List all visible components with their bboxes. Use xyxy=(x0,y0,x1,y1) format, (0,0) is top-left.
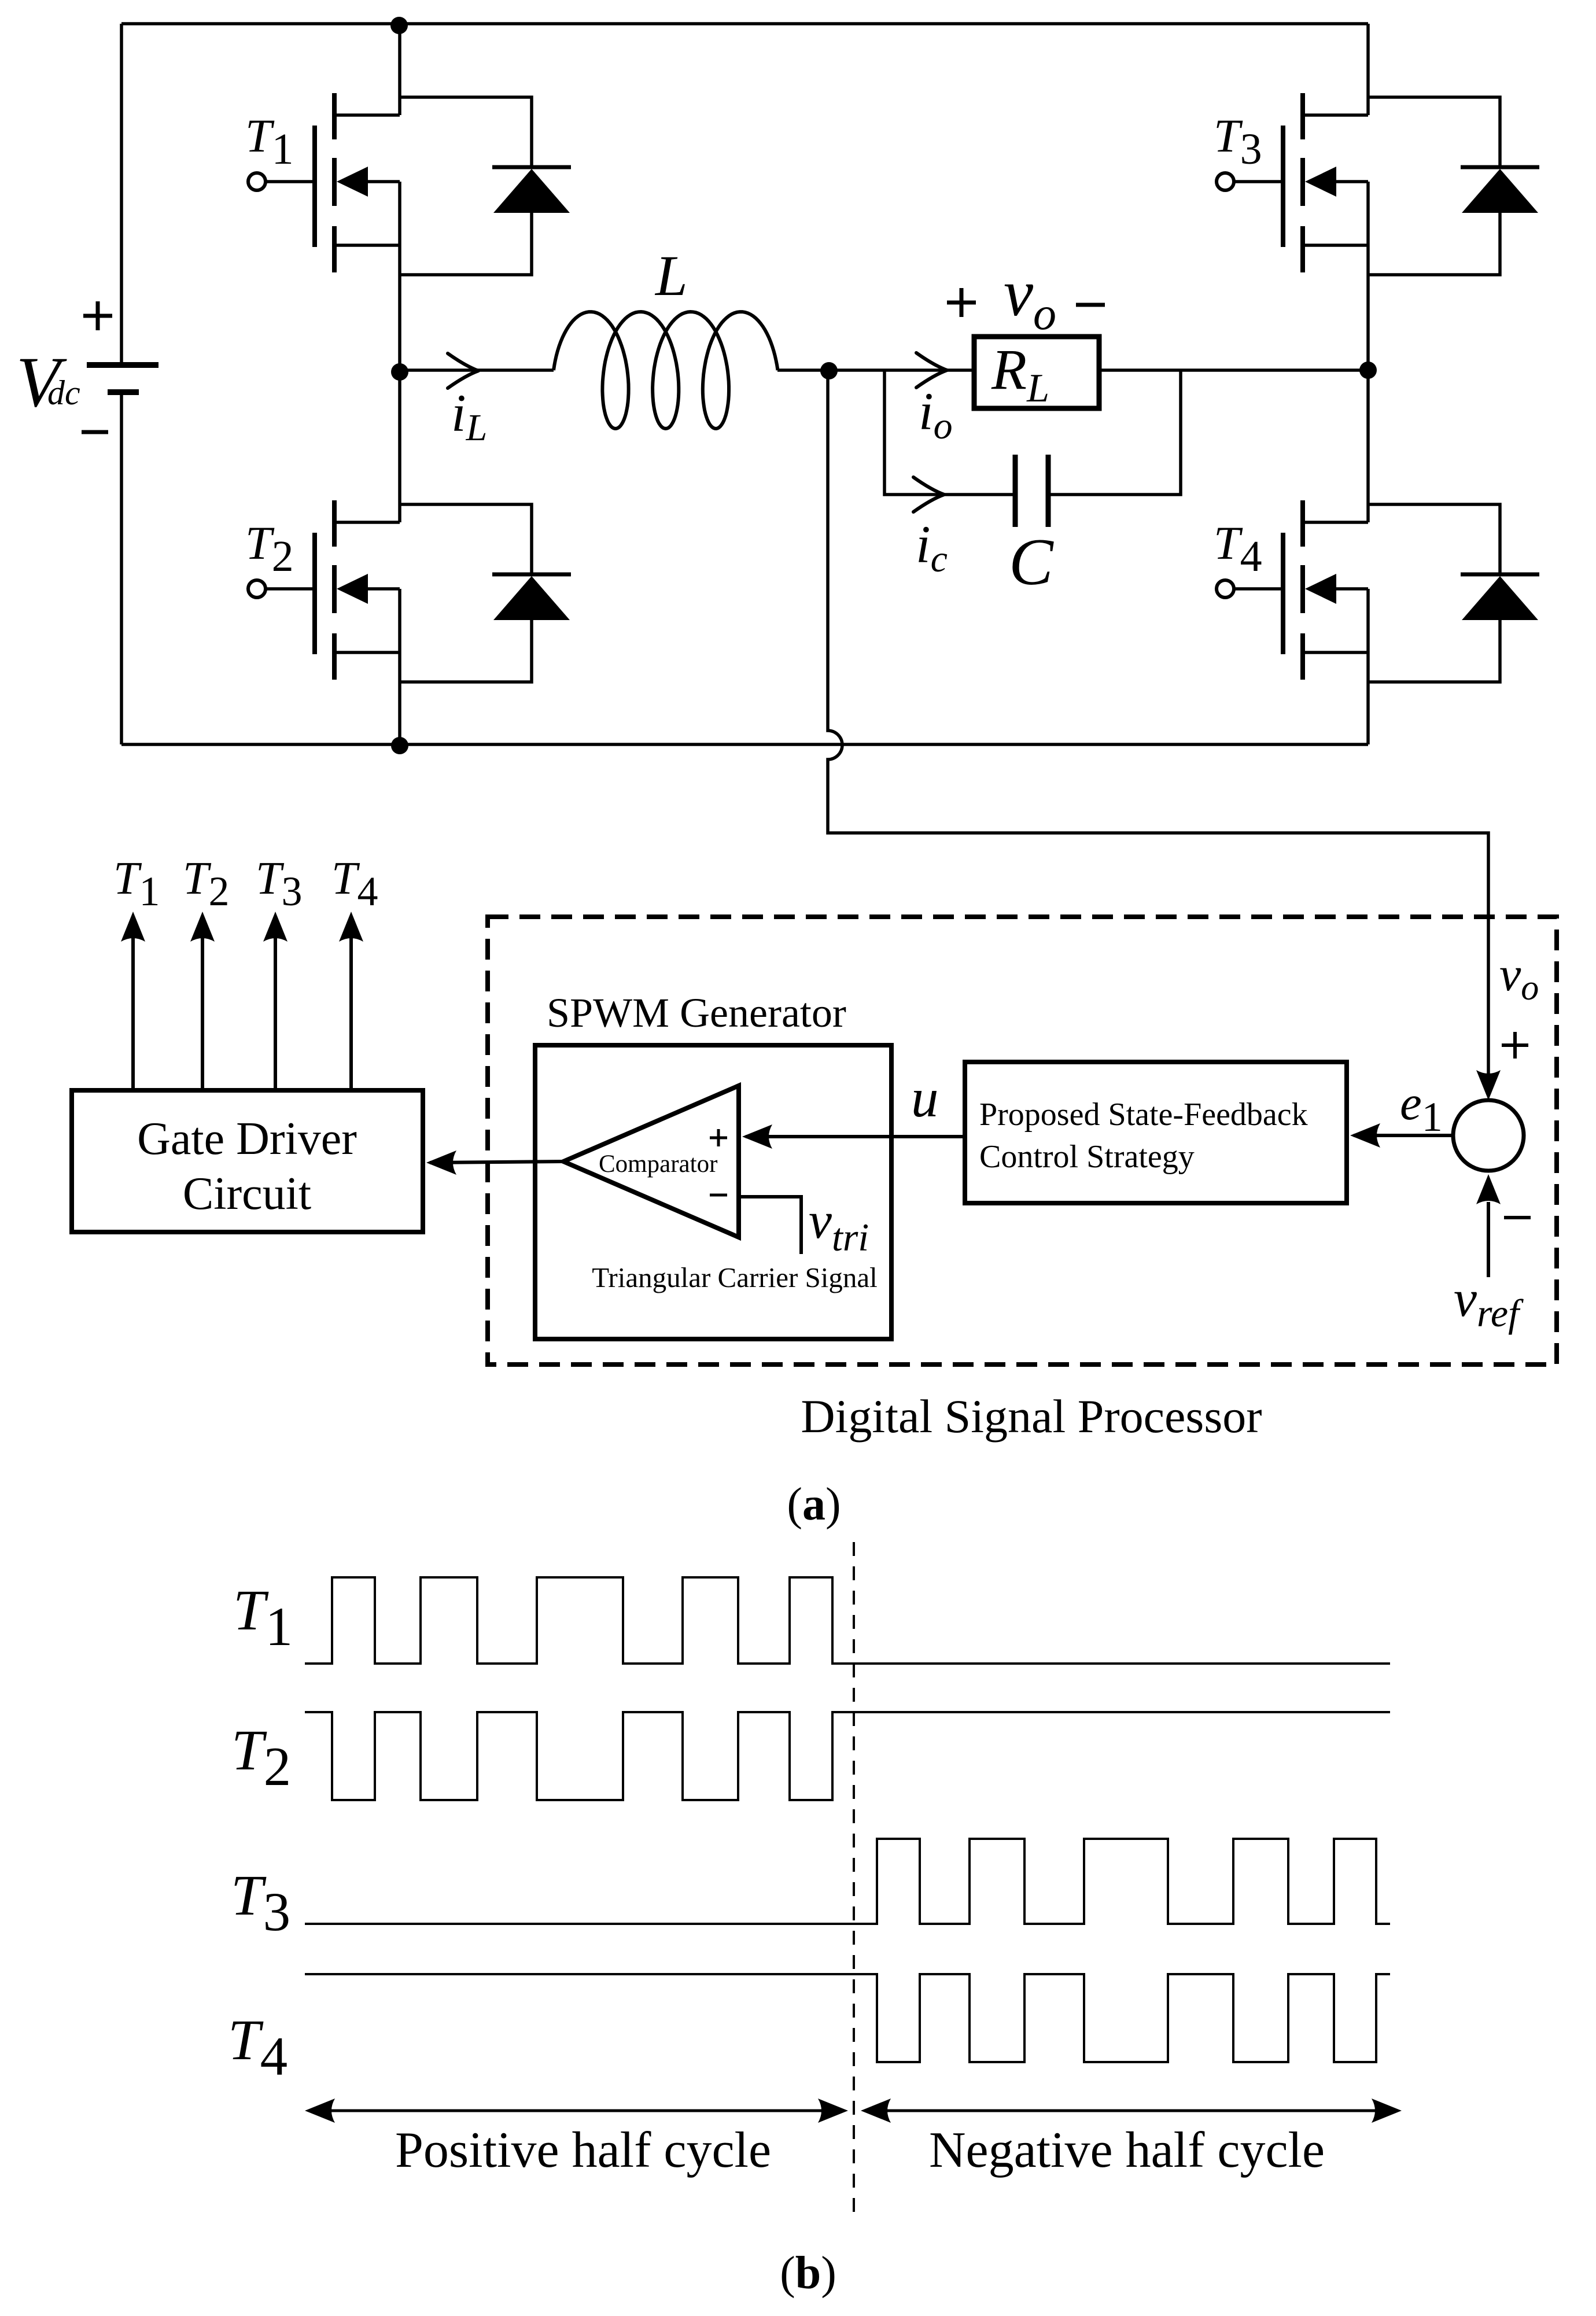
wire RL to right midpoint xyxy=(1099,368,1368,372)
battery Vdc plus plate xyxy=(87,362,159,368)
inductor L coil xyxy=(554,312,778,429)
op-amp comparator triangle xyxy=(563,1086,739,1237)
arrowhead vo into summer xyxy=(1476,1070,1501,1100)
svg-text:Gate Driver: Gate Driver xyxy=(137,1113,357,1164)
wire vtri into comparator minus xyxy=(739,1197,801,1254)
transistor T4 drain pin xyxy=(1303,521,1368,524)
wire bottom rail xyxy=(121,743,1368,746)
SPWM generator box xyxy=(535,1045,891,1339)
battery minus sign xyxy=(82,430,108,434)
waveform T1 gate signal xyxy=(305,1577,1390,1664)
transistor T1 gate bar xyxy=(312,126,317,247)
transistor T3 drain/source stubs xyxy=(1366,97,1370,275)
transistor T4 channel segments xyxy=(1300,500,1305,680)
waveform T2 gate signal xyxy=(305,1712,1390,1800)
transistor T2 gate bar xyxy=(312,533,317,654)
wire left midpoint to inductor xyxy=(400,368,554,372)
transistor T1 (MOSFET, top-left) xyxy=(248,93,571,275)
comparator minus input sign xyxy=(710,1194,727,1197)
arrow iL on wire xyxy=(448,353,478,388)
arrow vref into summer xyxy=(1487,1202,1490,1277)
waveform T4 gate signal xyxy=(305,1974,1390,2062)
capacitor C plates xyxy=(1013,455,1018,527)
wire T3 drain to top rail xyxy=(1366,24,1370,97)
wire T1 source to midpoint node xyxy=(398,275,401,372)
node right bridge midpoint dot xyxy=(1359,362,1377,379)
comparator plus input sign xyxy=(710,1129,727,1146)
wire u into comparator plus xyxy=(746,1135,965,1138)
svg-text:(b): (b) xyxy=(780,2248,836,2299)
transistor T1 drain/source stubs xyxy=(398,97,401,275)
anti-parallel diode of T3 xyxy=(1368,97,1500,275)
transistor T2 drain/source stubs xyxy=(398,504,401,682)
arrow gate signal T3 xyxy=(274,928,277,1090)
anti-parallel diode of T1 xyxy=(400,97,532,275)
arrow io on wire xyxy=(916,353,947,388)
summer minus sign xyxy=(1504,1216,1531,1219)
arrow gate signal T1 xyxy=(131,928,135,1090)
svg-text:Comparator: Comparator xyxy=(599,1150,717,1178)
dashed half-cycle divider xyxy=(853,1542,855,2221)
svg-text:Digital Signal Processor: Digital Signal Processor xyxy=(801,1390,1262,1443)
transistor T1 gate terminal circle xyxy=(248,173,266,190)
transistor T4 gate lead xyxy=(1234,587,1283,591)
summer plus sign xyxy=(1502,1032,1528,1059)
node left bridge midpoint dot xyxy=(391,363,408,381)
transistor T3 gate terminal circle xyxy=(1217,173,1234,190)
transistor T2 gate lead xyxy=(266,587,315,591)
arrow positive half cycle span xyxy=(308,2110,845,2112)
wire output node to RL xyxy=(829,368,974,372)
wire e1 from summer to control box xyxy=(1354,1134,1453,1137)
transistor T3 (MOSFET, top-right) xyxy=(1217,93,1539,275)
svg-text:u: u xyxy=(911,1067,939,1129)
transistor T2 (MOSFET, bottom-left) xyxy=(248,500,571,682)
wire T1 drain to top rail xyxy=(398,24,401,97)
transistor T1 body arrow xyxy=(337,167,368,197)
wire T4 drain to right midpoint node xyxy=(1366,370,1370,504)
transistor T4 gate terminal circle xyxy=(1217,580,1234,598)
battery plus sign xyxy=(83,301,112,330)
transistor T3 body arrow xyxy=(1305,167,1336,197)
wire inductor to output node xyxy=(777,368,829,372)
wire output node down with hop over bottom rail xyxy=(828,371,1488,1077)
transistor T4 (MOSFET, bottom-right) xyxy=(1217,500,1539,682)
wire comparator output to gate driver xyxy=(430,1161,563,1163)
arrow gate signal T2 xyxy=(201,928,204,1090)
svg-text:Circuit: Circuit xyxy=(183,1168,311,1219)
transistor T1 channel segments xyxy=(332,93,337,272)
transistor T4 drain/source stubs xyxy=(1366,504,1370,682)
svg-text:Positive half cycle: Positive half cycle xyxy=(395,2122,771,2178)
transistor T1 source pin xyxy=(334,244,400,247)
waveform T3 gate signal xyxy=(305,1839,1390,1924)
transistor T3 gate bar xyxy=(1281,126,1285,247)
wire capacitor branch left drop xyxy=(884,370,1013,495)
transistor T2 body arrow xyxy=(337,574,368,604)
summing junction circle xyxy=(1453,1100,1524,1171)
gate driver circuit box xyxy=(72,1090,423,1232)
anti-parallel diode of T4 xyxy=(1368,504,1500,682)
wire left rail lower xyxy=(120,395,123,744)
transistor T4 gate bar xyxy=(1281,533,1285,654)
svg-text:L: L xyxy=(654,244,688,308)
svg-text:Triangular Carrier Signal: Triangular Carrier Signal xyxy=(592,1262,878,1293)
anti-parallel diode of T2 xyxy=(400,504,532,682)
wire top rail xyxy=(121,22,1368,25)
svg-text:Control Strategy: Control Strategy xyxy=(979,1139,1195,1175)
arrow gate signal T4 xyxy=(349,928,353,1090)
control strategy box xyxy=(965,1062,1347,1203)
wire left rail upper xyxy=(120,24,123,363)
transistor T3 source pin xyxy=(1303,244,1368,247)
transistor T2 channel segments xyxy=(332,500,337,680)
svg-text:C: C xyxy=(1009,525,1054,599)
transistor T1 gate lead xyxy=(266,180,315,183)
wire T4 source to bottom rail xyxy=(1366,682,1370,744)
transistor T4 body arrow xyxy=(1305,574,1336,604)
DSP dashed box xyxy=(488,917,1557,1364)
svg-text:SPWM Generator: SPWM Generator xyxy=(547,990,846,1036)
transistor T3 gate lead xyxy=(1234,180,1283,183)
node output junction dot xyxy=(820,362,838,379)
transistor T3 channel segments xyxy=(1300,93,1305,272)
node bottom-left junction dot xyxy=(391,737,408,754)
resistor RL box xyxy=(974,337,1099,408)
wire T3 source to right midpoint node xyxy=(1366,275,1370,372)
svg-text:(a): (a) xyxy=(787,1479,841,1530)
svg-text:Negative half cycle: Negative half cycle xyxy=(929,2122,1325,2178)
transistor T4 source pin xyxy=(1303,651,1368,654)
arrow negative half cycle span xyxy=(864,2110,1398,2112)
node top-left junction dot xyxy=(390,17,408,34)
svg-text:dc: dc xyxy=(47,374,80,412)
label +vo- above RL xyxy=(947,288,976,317)
transistor T2 drain pin xyxy=(334,521,400,524)
svg-text:Proposed State-Feedback: Proposed State-Feedback xyxy=(979,1097,1308,1133)
transistor T2 gate terminal circle xyxy=(248,580,266,598)
wire T2 source to bottom rail xyxy=(398,682,401,744)
arrow ic on wire xyxy=(913,477,944,512)
wire T2 drain to midpoint node xyxy=(398,370,401,504)
wire capacitor right return xyxy=(1048,370,1181,495)
transistor T2 source pin xyxy=(334,651,400,654)
battery Vdc minus plate xyxy=(108,389,139,395)
transistor T1 drain pin xyxy=(334,113,400,117)
transistor T3 drain pin xyxy=(1303,113,1368,117)
